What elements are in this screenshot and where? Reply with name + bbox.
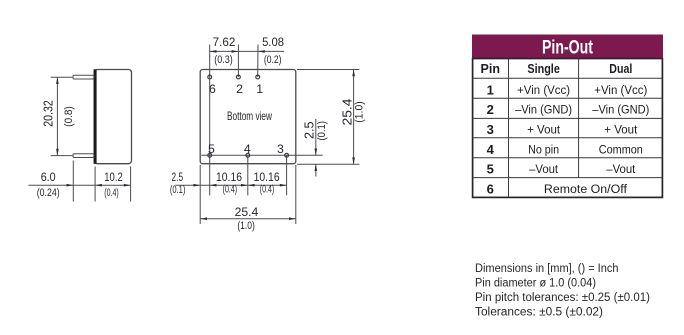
side view left edge thick bar [94, 69, 97, 164]
svg-text:4: 4 [244, 142, 251, 156]
svg-text:(0.24): (0.24) [37, 187, 60, 199]
dim 10.16 arrow at pin3 [280, 184, 287, 187]
pin 4 circle [246, 153, 250, 157]
pin 3 circle [285, 153, 289, 157]
dim 2.5 right arrow down [315, 149, 318, 156]
svg-text:(0.1): (0.1) [316, 121, 328, 141]
pin 4 ext line below [247, 155, 249, 195]
pin row line [201, 154, 322, 156]
svg-text:(0.4): (0.4) [223, 184, 238, 196]
ext line bottom edge right [297, 163, 359, 165]
svg-text:2: 2 [236, 82, 243, 96]
pin 1 ext line [257, 45, 259, 78]
svg-text:6.0: 6.0 [41, 172, 56, 184]
svg-text:–Vout: –Vout [529, 162, 559, 176]
pin 3 ext line below [286, 155, 288, 195]
svg-text:2.5: 2.5 [172, 172, 184, 184]
svg-text:(0.1): (0.1) [170, 184, 186, 196]
svg-text:10.16: 10.16 [216, 172, 242, 184]
svg-text:2.5: 2.5 [303, 122, 317, 140]
svg-text:6: 6 [487, 181, 494, 196]
table outer border [473, 59, 663, 198]
dim 7.62 arrow right [232, 50, 239, 53]
bottom dimension line 2.5 / 10.16 / 10.16 [175, 184, 286, 186]
svg-text:Common: Common [599, 142, 643, 156]
svg-text:7.62: 7.62 [213, 37, 236, 49]
dim 6.0 arrow right [67, 184, 74, 187]
svg-text:No pin: No pin [528, 142, 559, 156]
top dimension line 7.62 / 5.08 [210, 50, 284, 52]
bottom view package outline [200, 70, 296, 164]
dim 10.2 arrow left [95, 184, 102, 187]
dim 5.08 arrow [258, 50, 265, 53]
dim 20.32 extension line bottom [51, 155, 73, 157]
svg-text:4: 4 [487, 142, 495, 157]
svg-text:–Vin (GND): –Vin (GND) [592, 103, 649, 117]
svg-text:5: 5 [487, 162, 494, 177]
dim 25.4 bottom dimension line [200, 218, 296, 220]
svg-text:(0.4): (0.4) [260, 184, 275, 196]
dim 2.5 right dimension line lower [315, 164, 317, 176]
dim 7.62 arrow left [210, 50, 217, 53]
svg-text:Bottom view: Bottom view [227, 109, 272, 123]
svg-text:+Vin (Vcc): +Vin (Vcc) [594, 83, 647, 97]
svg-text:Pin-Out: Pin-Out [542, 37, 593, 59]
pin 2 circle [237, 75, 241, 79]
dim 25.4 right dimension line [353, 70, 355, 165]
svg-text:(0.4): (0.4) [104, 187, 119, 199]
svg-text:Single: Single [527, 61, 560, 76]
svg-text:+ Vout: + Vout [527, 123, 561, 137]
dim 25.4 bottom arrow right [289, 217, 296, 220]
pin 5 circle [208, 153, 212, 157]
svg-text:1: 1 [487, 82, 494, 97]
pin-out table header band [472, 35, 663, 59]
svg-text:Remote On/Off: Remote On/Off [544, 182, 628, 196]
svg-text:–Vout: –Vout [606, 162, 636, 176]
svg-text:10.2: 10.2 [104, 172, 123, 184]
svg-text:1: 1 [256, 82, 263, 96]
svg-text:Pin: Pin [481, 61, 501, 76]
svg-text:5.08: 5.08 [262, 37, 284, 49]
dim 10.2 arrow right [124, 184, 131, 187]
svg-text:20.32: 20.32 [42, 100, 56, 127]
svg-text:Tolerances: ±0.5 (±0.02): Tolerances: ±0.5 (±0.02) [475, 306, 603, 318]
svg-text:Pin diameter ø 1.0 (0.04): Pin diameter ø 1.0 (0.04) [475, 277, 596, 289]
svg-text:Dimensions in [mm], () = Inch: Dimensions in [mm], () = Inch [475, 263, 619, 275]
svg-text:(1.0): (1.0) [237, 220, 255, 232]
svg-text:3: 3 [277, 142, 284, 156]
ext line package left below [199, 165, 201, 224]
svg-text:2: 2 [487, 102, 494, 117]
ext line pin tip [72, 161, 74, 202]
svg-text:(1.0): (1.0) [354, 101, 366, 123]
svg-text:–Vin (GND): –Vin (GND) [515, 103, 572, 117]
svg-text:(0.2): (0.2) [264, 54, 282, 66]
svg-text:(0.8): (0.8) [63, 106, 75, 127]
svg-text:25.4: 25.4 [235, 207, 259, 219]
side view body outline [94, 70, 131, 164]
svg-text:+ Vout: + Vout [604, 123, 638, 137]
dim 25.4 bottom arrow left [200, 217, 207, 220]
dim 10.16 arrow at pin5 [210, 184, 217, 187]
ext line body right [130, 167, 132, 202]
dim 2.5 right dimension line upper [315, 119, 317, 155]
side view top pin [73, 75, 94, 79]
dim 20.32 dimension line [56, 77, 58, 155]
pin 6/5 column line [209, 45, 211, 196]
dim 20.32 extension line top [51, 76, 73, 78]
svg-text:10.16: 10.16 [254, 172, 280, 184]
side view bottom pin [73, 154, 94, 158]
table column line 2 [578, 59, 580, 178]
table column line 1 [508, 59, 510, 198]
dim 20.32 arrow up [56, 77, 59, 84]
side view bottom dimension line [28, 184, 130, 186]
dim 25.4 right arrow down [352, 157, 355, 164]
dim 10.16 arrows at pin4 [241, 184, 248, 187]
svg-text:5: 5 [208, 142, 215, 156]
ext line package right below [295, 165, 297, 224]
svg-text:6: 6 [209, 82, 216, 96]
svg-text:3: 3 [487, 122, 494, 137]
svg-text:Dual: Dual [609, 61, 632, 76]
svg-text:+Vin (Vcc): +Vin (Vcc) [517, 83, 570, 97]
pin 2 ext line [237, 45, 239, 78]
pin 1 circle [256, 75, 260, 79]
dim 20.32 arrow down [56, 149, 59, 156]
ext line body left [94, 167, 96, 202]
svg-text:25.4: 25.4 [340, 98, 354, 125]
ext line top edge right [297, 69, 359, 71]
dim 2.5 right arrow up [315, 164, 318, 171]
dim 2.5 arrow right [193, 184, 200, 187]
svg-text:(0.3): (0.3) [214, 54, 233, 66]
dim 25.4 right arrow up [352, 70, 355, 77]
svg-text:Pin pitch tolerances: ±0.25 (±: Pin pitch tolerances: ±0.25 (±0.01) [475, 292, 650, 304]
pin 6 circle [208, 75, 212, 79]
